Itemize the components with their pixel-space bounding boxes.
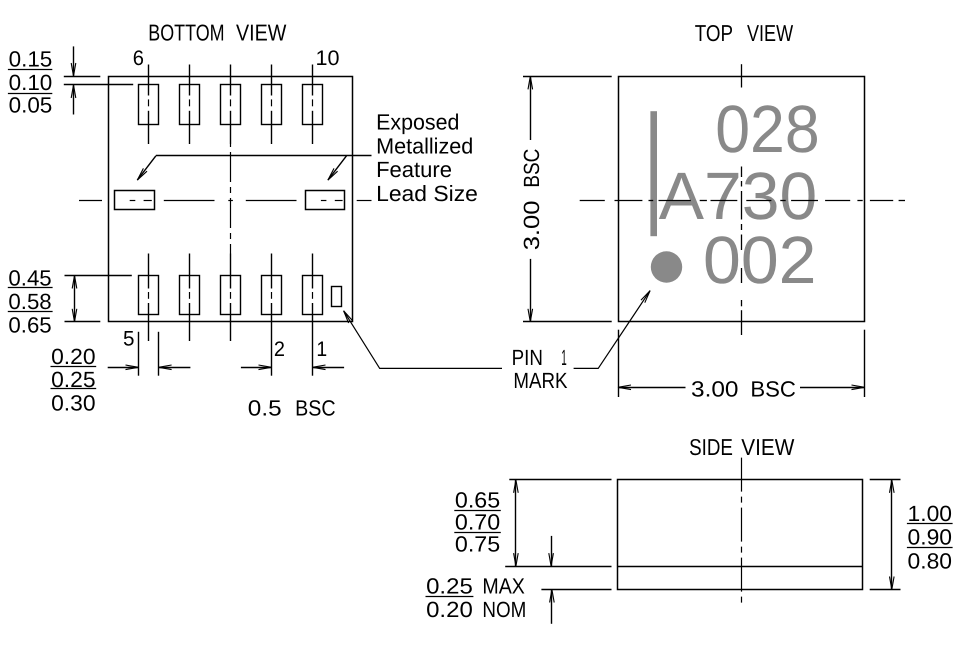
vertical centerline side view [741,458,743,605]
bottom view package outline [109,77,353,322]
exposed metallized feature left [115,191,155,210]
dim arrow up to bottom [550,590,555,624]
svg-text:0.5: 0.5 [248,396,282,421]
svg-text:VIEW: VIEW [741,434,794,460]
svg-text:0.25: 0.25 [426,574,473,599]
svg-text:0.10: 0.10 [9,70,53,95]
extension line pad5 left edge [138,332,140,376]
svg-text:5: 5 [123,327,135,350]
dim underline 0.65 side [454,510,501,512]
top view package outline [619,77,865,322]
dim arrow lead width right [159,365,191,370]
dim arrow lead width left [108,365,139,370]
svg-text:BSC: BSC [750,377,796,402]
dim underline 0.15 [8,69,52,71]
pad pin 10 [303,85,323,125]
dim arrow 3.00 BSC up [528,76,533,140]
svg-text:Lead Size: Lead Size [376,181,478,206]
dim arrow down to package top [71,46,76,76]
pad pin 8 [221,85,241,125]
extension line side top right [870,479,901,481]
svg-text:028: 028 [715,92,820,167]
svg-text:0.20: 0.20 [426,597,473,622]
svg-text:Feature: Feature [376,157,452,182]
pin 1 center line [312,254,314,376]
svg-text:1: 1 [316,338,327,361]
dim double arrow body height [514,480,519,566]
pin 3 center line [230,254,232,342]
extension line side bottom right [870,589,901,591]
extension line package top [64,76,101,78]
svg-text:10: 10 [316,47,340,70]
svg-text:0.30: 0.30 [51,390,96,415]
svg-text:VIEW: VIEW [747,20,793,46]
leader arrow to left feature [137,156,156,180]
svg-text:0.05: 0.05 [9,93,53,118]
leader line exposed features [156,155,372,157]
dim underline 0.25 [51,388,97,390]
pad pin 4 [180,276,200,315]
svg-text:0.45: 0.45 [8,266,51,291]
svg-text:Metallized: Metallized [376,134,473,159]
svg-text:0.75: 0.75 [455,532,500,557]
svg-text:Exposed: Exposed [376,110,459,135]
svg-text:SIDE: SIDE [689,434,733,460]
extension line side bottom left [541,589,611,591]
svg-text:1: 1 [561,345,567,370]
dim arrow pitch left [241,365,272,370]
pad pin 3 [221,276,241,315]
pad pin 9 [262,85,282,125]
leader arrow to right feature [328,156,347,180]
svg-text:PIN: PIN [512,345,543,370]
svg-text:3.00: 3.00 [519,201,544,251]
svg-text:6: 6 [133,47,144,70]
title SIDE VIEW [689,434,795,460]
exposed metallized feature right [306,191,345,210]
horizontal centerline top view [580,200,905,202]
svg-text:VIEW: VIEW [236,19,287,45]
side view body outline [618,480,863,590]
extension line side seam left [505,566,611,568]
marking pin 1 dot [651,251,682,282]
svg-text:0.15: 0.15 [9,47,53,72]
extension line side top left [509,479,611,481]
extension line top view upper [523,76,612,78]
pin 6 center line [148,65,150,145]
svg-text:3.00: 3.00 [691,377,739,402]
vertical centerline bottom view [230,144,232,254]
dim arrow down to seam [549,536,554,566]
extension line pad5 right edge [158,332,160,376]
dim arrow 3.00 BSC down [528,259,533,322]
dim underline 0.20 [51,366,97,368]
pad pin 2 [262,276,282,315]
dim double arrow pad height [72,276,77,322]
svg-text:BOTTOM: BOTTOM [148,19,224,45]
svg-text:BSC: BSC [519,149,544,188]
dim underline 0.70 side [454,532,501,534]
marking bar [650,111,657,236]
svg-text:TOP: TOP [695,20,733,46]
horizontal centerline bottom view [79,200,372,202]
pin 5 center line [148,254,150,342]
svg-text:0.65: 0.65 [8,312,51,337]
extension line bottom pad top [65,275,132,277]
pin 7 center line [189,65,191,145]
svg-text:NOM: NOM [482,597,526,622]
pad pin 6 [139,85,159,125]
extension line top view right lower [864,330,866,397]
vertical centerline top view [741,64,743,335]
leader to pin1 dot [574,291,651,369]
dim arrow 3.00 BSC left [618,385,686,390]
dim underline 0.10 [8,93,52,95]
extension line top view lower [523,321,612,323]
side view seam line [618,566,864,568]
dim underline 1.00 [907,523,953,525]
svg-text:0.90: 0.90 [908,525,953,550]
title BOTTOM VIEW [148,19,286,45]
extension line package bottom left [65,321,101,323]
dim underline 0.45 [8,287,53,289]
svg-text:BSC: BSC [295,396,336,421]
pad pin 1 [303,276,323,315]
extension line top view left lower [618,330,620,397]
pin 9 center line [271,65,273,145]
svg-text:MAX: MAX [482,574,525,599]
svg-text:0.20: 0.20 [51,344,96,369]
pin 1 mark rectangle [332,287,342,307]
pin 8 center line [230,65,232,145]
svg-text:002: 002 [703,223,817,298]
dim underline 0.90 [907,547,953,549]
svg-text:MARK: MARK [513,368,567,393]
pad pin 5 [139,276,159,315]
title TOP VIEW [695,20,794,46]
dim arrow pitch right [313,365,345,370]
dim arrow 3.00 BSC right [800,385,865,390]
leader to pin1 mark rect [344,311,502,369]
pin 10 center line [312,65,314,145]
svg-text:0.58: 0.58 [8,289,51,314]
svg-text:0.80: 0.80 [908,548,953,573]
svg-text:2: 2 [274,338,285,361]
dim underline 0.25 side [426,596,474,598]
dim double arrow total height [890,480,895,590]
dim underline 0.58 [8,311,53,313]
dim arrow up to pad top [71,85,76,115]
extension line pad top edge [64,84,133,86]
svg-text:1.00: 1.00 [908,501,953,526]
pin 2 center line [271,254,273,376]
pad pin 7 [180,85,200,125]
pin 4 center line [189,254,191,342]
